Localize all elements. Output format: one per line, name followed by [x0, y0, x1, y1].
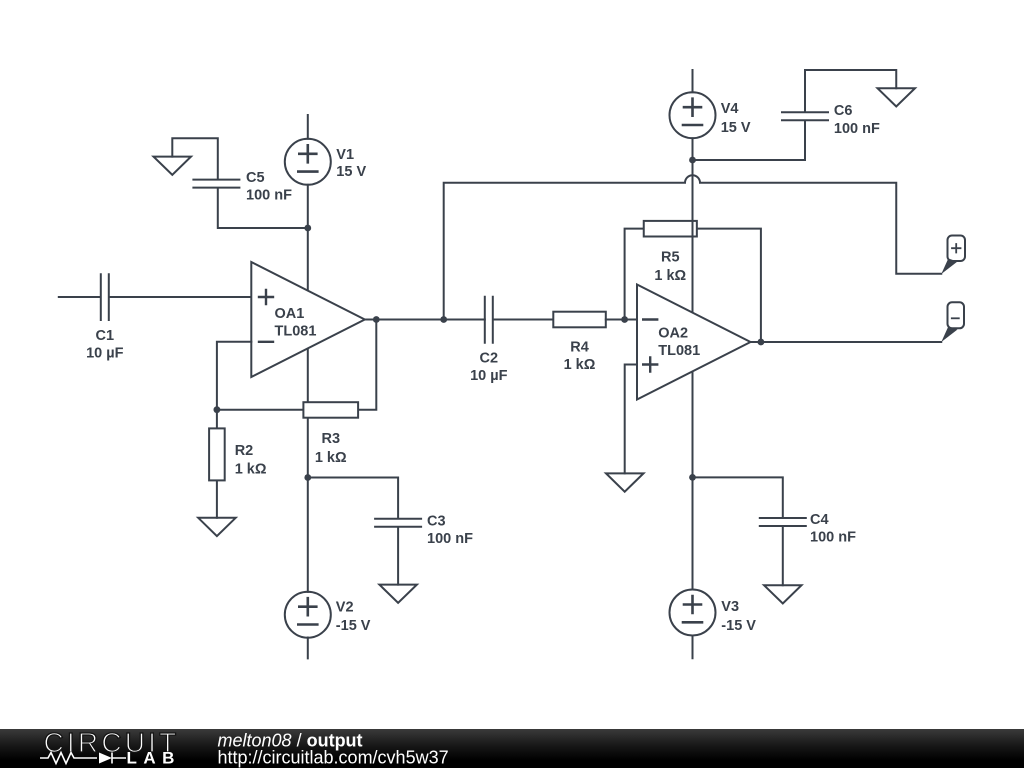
svg-text:1 kΩ: 1 kΩ: [564, 357, 596, 373]
svg-text:1 kΩ: 1 kΩ: [235, 462, 267, 478]
svg-text:LAB: LAB: [127, 749, 181, 768]
svg-text:100 nF: 100 nF: [427, 531, 473, 547]
svg-text:C3: C3: [427, 513, 446, 529]
svg-text:V3: V3: [721, 599, 739, 615]
svg-text:R5: R5: [661, 249, 680, 265]
svg-text:100 nF: 100 nF: [246, 187, 292, 203]
svg-text:-15 V: -15 V: [721, 618, 756, 634]
svg-text:10 µF: 10 µF: [470, 368, 508, 384]
svg-text:1 kΩ: 1 kΩ: [654, 268, 686, 284]
svg-text:R4: R4: [570, 339, 589, 355]
svg-text:15 V: 15 V: [336, 164, 366, 180]
svg-text:V4: V4: [721, 101, 739, 117]
svg-text:TL081: TL081: [275, 324, 317, 340]
svg-text:http://circuitlab.com/cvh5w37: http://circuitlab.com/cvh5w37: [218, 748, 449, 768]
svg-text:10 µF: 10 µF: [86, 346, 124, 362]
svg-text:R2: R2: [235, 443, 254, 459]
svg-text:R3: R3: [321, 431, 340, 447]
svg-text:-15 V: -15 V: [336, 618, 371, 634]
svg-text:1 kΩ: 1 kΩ: [315, 450, 347, 466]
svg-text:C5: C5: [246, 170, 265, 186]
svg-text:100 nF: 100 nF: [810, 530, 856, 546]
svg-text:OA2: OA2: [658, 326, 688, 342]
svg-text:15 V: 15 V: [721, 120, 751, 136]
svg-text:C2: C2: [480, 351, 499, 367]
svg-text:100 nF: 100 nF: [834, 121, 880, 137]
svg-text:V1: V1: [336, 147, 354, 163]
svg-text:OA1: OA1: [275, 306, 305, 322]
svg-text:C1: C1: [96, 328, 115, 344]
svg-text:C4: C4: [810, 512, 829, 528]
svg-text:V2: V2: [336, 600, 354, 616]
svg-text:C6: C6: [834, 103, 853, 119]
svg-text:TL081: TL081: [658, 343, 700, 359]
